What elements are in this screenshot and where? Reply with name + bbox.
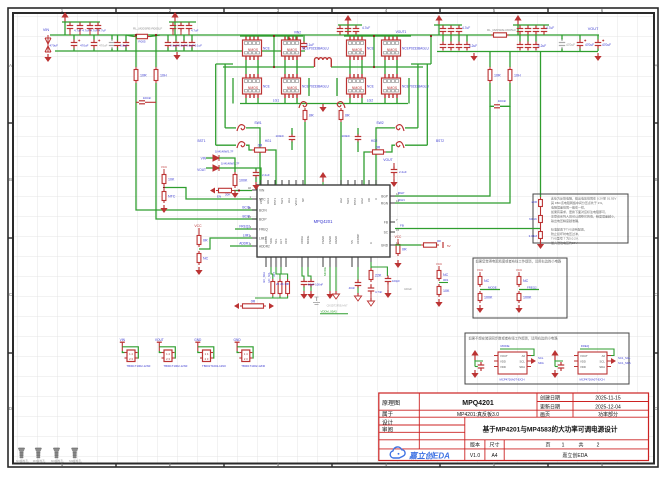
svg-text:0R: 0R	[402, 248, 407, 252]
svg-text:属于: 属于	[382, 411, 394, 418]
svg-text:VCC: VCC	[516, 268, 523, 272]
svg-text:最大钳位电压为29V: 最大钳位电压为29V	[551, 240, 577, 245]
svg-text:A: A	[654, 63, 657, 68]
svg-text:MODE: MODE	[306, 235, 310, 244]
svg-text:A: A	[9, 63, 12, 68]
svg-text:BST2: BST2	[436, 139, 444, 143]
svg-text:2025-12-04: 2025-12-04	[595, 404, 621, 410]
svg-text:NMOS: NMOS	[287, 48, 298, 52]
svg-text:1 4: 1 4	[244, 352, 248, 356]
svg-text:ADDR1: ADDR1	[239, 242, 250, 246]
svg-text:X: X	[374, 198, 378, 200]
svg-text:如果有需求，更换下面对应标注电阻即可，: 如果有需求，更换下面对应标注电阻即可，	[551, 209, 608, 214]
svg-text:100pF: 100pF	[392, 279, 400, 283]
svg-text:1 4: 1 4	[129, 352, 133, 356]
svg-text:A0: A0	[602, 354, 606, 358]
svg-text:VIN: VIN	[120, 338, 126, 342]
svg-text:HG1: HG1	[265, 139, 272, 143]
svg-text:VDD: VDD	[500, 360, 506, 364]
svg-text:NC: NC	[203, 257, 209, 261]
svg-text:10H: 10H	[514, 74, 521, 78]
svg-text:100uF: 100uF	[404, 287, 412, 291]
svg-text:NCEP0233BAGLU: NCEP0233BAGLU	[402, 47, 429, 51]
svg-text:100K: 100K	[484, 296, 493, 300]
svg-text:VOUT: VOUT	[197, 168, 206, 172]
svg-text:NTC: NTC	[168, 195, 176, 199]
svg-text:MODE: MODE	[323, 267, 327, 276]
svg-text:NP: NP	[301, 198, 305, 202]
svg-text:100nF: 100nF	[275, 134, 284, 138]
svg-text:100K: 100K	[239, 179, 248, 183]
svg-text:VIN: VIN	[259, 189, 265, 193]
svg-text:60.1K: 60.1K	[529, 217, 537, 221]
svg-text:A4: A4	[491, 453, 497, 459]
svg-text:100nF: 100nF	[341, 134, 350, 138]
svg-text:470uF: 470uF	[49, 44, 58, 48]
svg-text:NCE: NCE	[367, 85, 374, 89]
svg-text:VIN: VIN	[201, 157, 207, 161]
svg-text:NC: NC	[443, 273, 449, 277]
svg-text:HG2: HG2	[371, 139, 378, 143]
svg-text:VDD: VDD	[580, 365, 586, 369]
svg-text:SC1_SCL: SC1_SCL	[618, 356, 631, 360]
svg-text:MPQ4201: MPQ4201	[314, 219, 334, 224]
svg-text:VRG: VRG	[259, 198, 263, 204]
svg-text:32: 32	[248, 186, 252, 190]
svg-text:10R: 10R	[140, 74, 147, 78]
svg-text:VIN: VIN	[43, 28, 50, 32]
svg-text:BGP: BGP	[381, 195, 388, 199]
svg-text:原理图: 原理图	[382, 400, 400, 407]
svg-text:4.7uF: 4.7uF	[462, 26, 470, 30]
svg-text:SCL: SCL	[274, 238, 278, 244]
svg-text:0R: 0R	[376, 146, 381, 150]
svg-text:SS: SS	[350, 240, 354, 244]
svg-text:NCEP0233BAGLU: NCEP0233BAGLU	[302, 85, 329, 89]
svg-text:2 3: 2 3	[205, 357, 209, 361]
svg-text:20R: 20R	[531, 200, 537, 204]
svg-text:防止损坏时电压过冲，: 防止损坏时电压过冲，	[551, 231, 581, 236]
svg-text:SCL: SCL	[538, 356, 544, 360]
svg-text:M3螺柱孔,: M3螺柱孔,	[16, 459, 29, 463]
svg-text:0R1: 0R1	[443, 278, 449, 282]
svg-text:4.7nF: 4.7nF	[375, 290, 382, 294]
svg-text:功率部分: 功率部分	[598, 411, 618, 418]
svg-text:VOUT: VOUT	[500, 354, 508, 358]
svg-text:R005: R005	[138, 40, 146, 44]
svg-text:其 FBC该电阻网络中间分压点处于 1%，: 其 FBC该电阻网络中间分压点处于 1%，	[551, 200, 605, 205]
svg-text:更新日期: 更新日期	[540, 403, 560, 410]
svg-text:22K: 22K	[375, 274, 382, 278]
svg-text:NMOS: NMOS	[352, 48, 363, 52]
svg-text:VOUT: VOUT	[588, 27, 599, 31]
svg-text:NMOS: NMOS	[387, 48, 398, 52]
svg-text:M3螺柱孔,: M3螺柱孔,	[69, 459, 82, 463]
svg-text:470uF: 470uF	[585, 43, 594, 47]
svg-text:页: 页	[545, 442, 550, 448]
svg-text:4.7uF: 4.7uF	[546, 26, 554, 30]
svg-text:VDDM_95A5: VDDM_95A5	[321, 310, 338, 314]
svg-text:BCIN: BCIN	[242, 206, 250, 210]
svg-text:VCC: VCC	[194, 224, 202, 228]
svg-text:VCC: VCC	[284, 238, 288, 244]
svg-text:输出电压精度越准确，: 输出电压精度越准确，	[551, 218, 581, 223]
svg-text:嘉立创EDA: 嘉立创EDA	[408, 452, 450, 461]
svg-text:VOUT: VOUT	[155, 338, 164, 342]
svg-text:SCL: SCL	[600, 360, 606, 364]
svg-text:注意该系列人员可以调整它的值，精度误差越小，: 注意该系列人员可以调整它的值，精度误差越小，	[551, 213, 617, 218]
svg-text:创建日期: 创建日期	[540, 395, 560, 402]
svg-text:VCC1: VCC1	[294, 198, 298, 206]
svg-text:20K: 20K	[225, 193, 230, 197]
svg-text:MPQ4201: MPQ4201	[462, 400, 494, 407]
svg-text:MODE: MODE	[488, 286, 497, 290]
svg-text:审阅: 审阅	[382, 426, 393, 434]
svg-text:FREQ2: FREQ2	[527, 286, 537, 290]
svg-text:1N4148WS,7F: 1N4148WS,7F	[221, 162, 240, 166]
svg-text:1 4: 1 4	[205, 352, 209, 356]
svg-text:BCIP: BCIP	[259, 218, 266, 222]
svg-text:BCIP: BCIP	[243, 215, 250, 219]
svg-text:ALT: ALT	[272, 272, 276, 277]
svg-text:HG2: HG2	[360, 198, 364, 204]
svg-text:LG2: LG2	[339, 198, 343, 204]
svg-text:SW2: SW2	[346, 198, 350, 205]
svg-text:HG1: HG1	[266, 198, 270, 204]
svg-text:ADDR: ADDR	[264, 236, 268, 244]
svg-text:VCC: VCC	[395, 235, 402, 239]
svg-text:NCEP0233BAGLU: NCEP0233BAGLU	[402, 85, 429, 89]
svg-text:4.7uF: 4.7uF	[191, 29, 199, 33]
svg-text:M3螺柱孔,: M3螺柱孔,	[33, 459, 46, 463]
svg-text:电阻误差范围一般在一样，: 电阻误差范围一般在一样，	[551, 204, 587, 209]
svg-text:0R: 0R	[251, 300, 256, 304]
svg-text:NCE: NCE	[367, 47, 374, 51]
svg-text:6.2uF: 6.2uF	[120, 44, 128, 48]
svg-text:VOUT1: VOUT1	[396, 30, 407, 34]
svg-text:LG1: LG1	[273, 99, 280, 103]
svg-text:FB: FB	[400, 224, 404, 228]
svg-text:SC1_SDA: SC1_SDA	[618, 361, 631, 365]
svg-text:BST2: BST2	[353, 198, 357, 205]
svg-text:FREQ2: FREQ2	[239, 225, 250, 229]
svg-text:1 4: 1 4	[166, 352, 170, 356]
svg-text:I2C_SDA: I2C_SDA	[262, 272, 266, 283]
svg-text:10uF 100nF: 10uF 100nF	[308, 283, 323, 287]
svg-text:100K: 100K	[523, 296, 532, 300]
svg-text:SW1: SW1	[280, 198, 284, 205]
svg-text:SW1: SW1	[254, 121, 261, 125]
svg-text:4.7uF: 4.7uF	[362, 26, 370, 30]
svg-text:0R: 0R	[309, 114, 314, 118]
svg-text:EN: EN	[217, 195, 221, 199]
svg-text:SW2: SW2	[376, 121, 383, 125]
svg-text:0R: 0R	[345, 114, 350, 118]
svg-text:FB: FB	[384, 221, 388, 225]
svg-text:MP4201:真反板3.0: MP4201:真反板3.0	[457, 411, 499, 418]
svg-text:CKSDT2F59J+N7: CKSDT2F59J+N7	[327, 304, 348, 308]
svg-text:NMOS: NMOS	[387, 86, 398, 90]
svg-text:SDA: SDA	[599, 365, 605, 369]
svg-text:470uF: 470uF	[80, 44, 89, 48]
svg-text:SC: SC	[384, 231, 389, 235]
svg-text:AGND: AGND	[334, 236, 338, 244]
svg-text:VOUT: VOUT	[383, 158, 392, 162]
svg-text:6.2uF: 6.2uF	[538, 44, 546, 48]
svg-text:470uF: 470uF	[602, 43, 611, 47]
svg-text:此处为反馈电阻，输出电压范围在 0.2V至 01.92V: 此处为反馈电阻，输出电压范围在 0.2V至 01.92V	[551, 196, 616, 201]
svg-text:RGN: RGN	[398, 198, 405, 202]
svg-text:5V: 5V	[447, 244, 451, 248]
svg-text:10H: 10H	[160, 74, 167, 78]
svg-text:设计: 设计	[382, 418, 394, 426]
svg-text:SCL: SCL	[520, 360, 526, 364]
svg-text:3.01M: 3.01M	[529, 234, 538, 238]
svg-text:NMOS: NMOS	[287, 86, 298, 90]
svg-text:10K: 10K	[168, 178, 175, 182]
svg-text:尺寸: 尺寸	[489, 441, 499, 448]
svg-text:M3螺柱孔,: M3螺柱孔,	[51, 459, 64, 463]
svg-text:NCE: NCE	[263, 47, 270, 51]
svg-text:MCP4726A0T-E/CH: MCP4726A0T-E/CH	[579, 378, 604, 382]
svg-text:2 3: 2 3	[129, 357, 133, 361]
svg-text:4.7uF 4.7uF 4.7uF 4.7uF: 4.7uF 4.7uF 4.7uF 4.7uF	[74, 29, 106, 33]
svg-text:LIM1: LIM1	[243, 234, 250, 238]
svg-text:470uF: 470uF	[99, 44, 108, 48]
svg-text:SDA: SDA	[519, 365, 525, 369]
svg-text:MCP4726A0T-E/CH: MCP4726A0T-E/CH	[499, 378, 524, 382]
svg-text:TB001T1002-12N0: TB001T1002-12N0	[241, 364, 265, 368]
svg-text:基于MP4201与MP4583的大功率可调电源设计: 基于MP4201与MP4583的大功率可调电源设计	[483, 424, 618, 433]
svg-text:B: B	[654, 177, 657, 182]
svg-text:LG2: LG2	[367, 99, 374, 103]
svg-text:2.2uF: 2.2uF	[262, 173, 270, 177]
svg-text:BST1: BST1	[273, 198, 277, 205]
svg-text:VOUT: VOUT	[580, 354, 588, 358]
svg-text:GND: GND	[234, 338, 242, 342]
svg-text:10K: 10K	[443, 289, 450, 293]
svg-text:ALT: ALT	[279, 239, 283, 244]
svg-text:如果您觉得电阻精度或者布线工作烦琐，请用右边的小电路: 如果您觉得电阻精度或者布线工作烦琐，请用右边的小电路	[476, 259, 562, 264]
svg-text:V1.0: V1.0	[470, 453, 481, 459]
svg-text:0R: 0R	[203, 239, 208, 243]
svg-text:画页: 画页	[540, 412, 550, 418]
svg-text:VDD: VDD	[580, 360, 586, 364]
svg-text:GND: GND	[381, 244, 389, 248]
svg-text:100nF: 100nF	[143, 96, 152, 100]
svg-text:RL_M20SRE-R005LF: RL_M20SRE-R005LF	[133, 27, 162, 31]
svg-text:NMOS: NMOS	[248, 48, 259, 52]
svg-text:VCC: VCC	[161, 165, 168, 169]
svg-text:100nF: 100nF	[498, 99, 507, 103]
svg-text:RGN: RGN	[381, 202, 389, 206]
svg-text:ADDR2: ADDR2	[259, 245, 270, 249]
svg-text:10R: 10R	[494, 74, 501, 78]
svg-text:VCC: VCC	[477, 268, 484, 272]
svg-text:版本: 版本	[470, 441, 480, 448]
svg-text:0R: 0R	[258, 144, 263, 148]
svg-text:MODE: MODE	[501, 344, 510, 348]
svg-text:NMOS: NMOS	[352, 86, 363, 90]
svg-text:6.2uF: 6.2uF	[469, 44, 477, 48]
svg-text:1: 1	[562, 442, 565, 448]
svg-text:X: X	[369, 242, 373, 244]
svg-text:VDDH: VDDH	[300, 236, 304, 244]
svg-text:1N4148WS,7F: 1N4148WS,7F	[215, 150, 234, 154]
svg-text:标准配置下TVS没有配置，: 标准配置下TVS没有配置，	[551, 227, 587, 232]
svg-text:BGP: BGP	[398, 191, 404, 195]
svg-text:NCE: NCE	[263, 85, 270, 89]
svg-text:TB001T1002-12N0: TB001T1002-12N0	[127, 364, 151, 368]
svg-text:VCC: VCC	[436, 262, 443, 266]
svg-text:NCEP0233BAGLU: NCEP0233BAGLU	[302, 47, 329, 51]
svg-text:RL_M20SRE-R005LF: RL_M20SRE-R005LF	[487, 28, 516, 32]
svg-text:TB001T1002-12N0: TB001T1002-12N0	[164, 364, 188, 368]
svg-text:SDA: SDA	[269, 238, 273, 244]
svg-text:FREQ: FREQ	[259, 228, 268, 232]
svg-text:2 3: 2 3	[244, 357, 248, 361]
svg-text:TVS型号 7 为5.0.2V,: TVS型号 7 为5.0.2V,	[551, 236, 579, 241]
svg-text:NC: NC	[523, 279, 529, 283]
svg-text:BST1: BST1	[198, 139, 206, 143]
svg-text:2K 2K 10K: 2K 2K 10K	[276, 282, 290, 286]
svg-text:470uF: 470uF	[566, 43, 575, 47]
svg-text:B: B	[9, 177, 12, 182]
svg-text:I2C_SCL: I2C_SCL	[267, 271, 271, 282]
svg-text:FREQ: FREQ	[581, 344, 590, 348]
svg-text:NC: NC	[484, 279, 490, 283]
svg-text:PGND: PGND	[321, 236, 325, 244]
svg-text:BCIN: BCIN	[259, 209, 267, 213]
svg-text:2025-11-15: 2025-11-15	[595, 396, 620, 402]
svg-text:嘉立创EDA: 嘉立创EDA	[562, 452, 588, 459]
svg-text:2: 2	[597, 442, 600, 448]
svg-text:40nF: 40nF	[349, 286, 356, 290]
svg-text:0.1uF 0.1uF 0.1uF 0.1uF: 0.1uF 0.1uF 0.1uF 0.1uF	[170, 44, 202, 48]
svg-text:PGND: PGND	[328, 236, 332, 244]
svg-text:共: 共	[578, 441, 583, 448]
svg-text:NMOS: NMOS	[248, 86, 259, 90]
svg-text:SDA: SDA	[538, 361, 544, 365]
svg-text:VDD: VDD	[500, 365, 506, 369]
svg-text:GND: GND	[194, 338, 202, 342]
svg-text:TB001T1002-12N0: TB001T1002-12N0	[202, 364, 226, 368]
svg-text:A0: A0	[522, 354, 526, 358]
svg-text:LG1: LG1	[287, 198, 291, 204]
svg-text:VCOMP: VCOMP	[356, 234, 360, 244]
svg-text:2.2uF: 2.2uF	[399, 170, 407, 174]
svg-text:2 3: 2 3	[166, 357, 170, 361]
svg-text:VIN2: VIN2	[294, 31, 301, 35]
svg-text:如果不想安装调同步数或者布线工作烦琐，请用右边的小电路: 如果不想安装调同步数或者布线工作烦琐，请用右边的小电路	[469, 336, 559, 341]
